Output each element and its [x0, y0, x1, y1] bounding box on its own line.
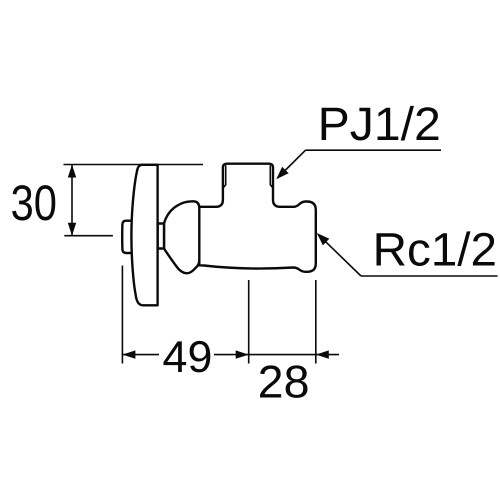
extension line bottom (30 dim): [64, 235, 113, 237]
extension line right (28 dim): [315, 280, 317, 364]
handle (oval knob): [131, 165, 157, 305]
vertical dimension line 30: [71, 165, 73, 236]
handle left cap (screw cover): [122, 221, 136, 253]
bonnet between stem and body: [164, 201, 199, 273]
thread relief line right of inlet stub: [270, 165, 273, 188]
arrowhead 30 top: [68, 165, 76, 178]
dimension line 49 left segment: [122, 354, 159, 356]
label Rc1/2: [377, 231, 495, 266]
leader underline PJ1/2: [306, 149, 442, 151]
thread relief line left of inlet stub: [223, 165, 226, 188]
stem between handle and bonnet: [158, 224, 164, 249]
arrowhead 49 right: [236, 350, 249, 358]
extension line left (49 dim): [121, 266, 123, 364]
dimension line 28: [249, 354, 316, 356]
extension line top (30 dim, over handle top): [64, 164, 204, 166]
label PJ1/2: [322, 106, 439, 141]
arrowhead 30 bottom: [68, 223, 76, 236]
dimension 28 outside arrow tail: [316, 354, 339, 356]
arrowhead 49 left: [122, 350, 135, 358]
dimension text 49: [164, 341, 211, 373]
arrowhead 28 outside right: [316, 350, 329, 358]
dimension text 28: [260, 365, 308, 398]
leader underline Rc1/2: [361, 275, 498, 277]
arrowhead Rc1/2 leader: [317, 233, 330, 245]
leader diagonal Rc1/2: [318, 234, 361, 276]
leader diagonal PJ1/2: [278, 150, 306, 178]
arrowhead PJ1/2 leader: [276, 167, 288, 179]
dimension line 49 right segment: [214, 354, 249, 356]
dimension text 30: [12, 185, 55, 220]
extension line middle (49/28 dim): [248, 280, 250, 364]
valve body with PJ1/2 inlet stub and Rc1/2 outlet cap: [199, 164, 315, 272]
